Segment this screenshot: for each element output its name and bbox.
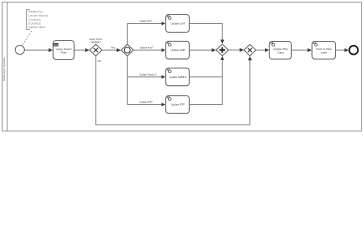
svg-text:market starts: market starts [28, 25, 46, 29]
svg-text:Update Amt?: Update Amt? [140, 46, 154, 50]
svg-text:Update RTF: Update RTF [171, 103, 185, 107]
svg-text:Update?: Update? [91, 40, 102, 44]
svg-text:Data: Data [277, 50, 284, 54]
svg-text:Lake: Lake [321, 50, 328, 54]
svg-text:Update ZHT?: Update ZHT? [139, 19, 152, 23]
svg-text:Update Version?: Update Version? [140, 72, 157, 76]
svg-text:Update RTF?: Update RTF? [140, 100, 153, 104]
svg-text:Data Sync System: Data Sync System [2, 57, 6, 81]
svg-text:Yes: Yes [111, 45, 116, 49]
svg-text:Rule: Rule [61, 50, 68, 54]
svg-text:No: No [98, 59, 102, 63]
svg-text:Update ZHT: Update ZHT [171, 22, 186, 26]
svg-text:Update ARMLS: Update ARMLS [169, 75, 187, 79]
svg-text:Update UMP: Update UMP [171, 48, 186, 52]
